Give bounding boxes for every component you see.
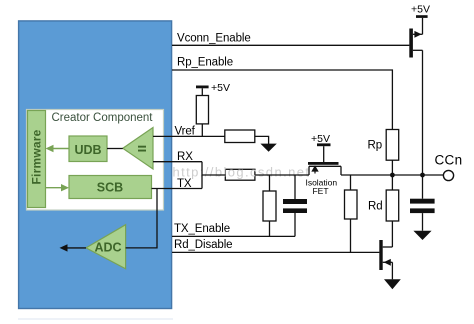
svg-text:Rd_Disable: Rd_Disable — [174, 239, 232, 251]
SCB block — [69, 176, 152, 199]
wire Vconn_Enable — [172, 44, 409, 46]
svg-text:+5V: +5V — [411, 3, 430, 15]
wire TX — [152, 188, 203, 190]
wire Vconn FET source down to CC line — [422, 50, 424, 175]
wire ADC input from TX node — [126, 189, 157, 248]
svg-text:TX_Enable: TX_Enable — [174, 223, 230, 235]
+5V supply (Vref pull-up) — [196, 82, 230, 96]
wire Rd_Disable — [172, 251, 379, 253]
ground (Vref) — [260, 144, 276, 152]
resistor Rd — [386, 175, 399, 247]
wire Vref — [153, 135, 225, 137]
node junction (cap at CC line) — [420, 173, 425, 178]
wire Rp_Enable — [172, 70, 392, 130]
resistor Rp — [386, 130, 399, 176]
ADC block — [86, 225, 126, 269]
wire isolation FET to CCn — [341, 174, 444, 176]
isolation FET Q1 — [308, 133, 341, 175]
arrow UDB to Firmware — [46, 145, 70, 152]
svg-text:Firmware: Firmware — [30, 129, 44, 184]
PSoC device block (blue) — [19, 21, 172, 309]
wire TX_Enable — [172, 235, 295, 237]
svg-text:Creator Component: Creator Component — [52, 112, 154, 124]
faint shadow line under device block — [18, 318, 173, 319]
svg-text:+5V: +5V — [311, 133, 330, 145]
capacitor (TX filter) — [283, 175, 307, 236]
resistor (pull-down after FET) — [345, 175, 358, 252]
ground (Rd FET) — [384, 279, 401, 289]
svg-text:Vconn_Enable: Vconn_Enable — [177, 32, 251, 44]
svg-text:Rd: Rd — [368, 201, 383, 213]
svg-text:ADC: ADC — [94, 240, 121, 254]
svg-text:SCB: SCB — [97, 181, 123, 195]
Vconn FET Q2 (top) — [409, 3, 430, 57]
svg-text:FET: FET — [312, 186, 328, 196]
Rd FET Q3 (bottom) — [379, 240, 392, 279]
terminal CCn — [443, 170, 453, 180]
arrow Firmware to SCB — [46, 184, 70, 191]
wire resistor to ground — [255, 136, 269, 144]
node junction (Rp/Rd at CC line) — [390, 173, 395, 178]
wire RX — [153, 161, 202, 163]
resistor (Vref series) — [225, 130, 255, 143]
resistor (Vref pull-up) — [196, 96, 208, 137]
resistor (CC series) — [225, 169, 255, 180]
firmware block — [28, 111, 46, 208]
resistor (TX pull-down) — [263, 175, 276, 236]
svg-text:Rp: Rp — [368, 140, 383, 152]
svg-text:RX: RX — [177, 151, 193, 163]
wire UDB to comparator — [107, 148, 123, 150]
ground (CC cap) — [413, 231, 431, 240]
svg-text:http://blog.csdn.net: http://blog.csdn.net — [173, 165, 311, 180]
arrow ADC output (left) — [60, 244, 87, 251]
svg-text:UDB: UDB — [74, 143, 101, 157]
svg-text:Rp_Enable: Rp_Enable — [177, 57, 233, 69]
wire series resistor to isolation FET — [255, 174, 309, 176]
Creator Component box — [27, 110, 164, 211]
svg-text:CCn: CCn — [435, 153, 463, 168]
wire to series resistor — [202, 174, 225, 176]
svg-text:TX: TX — [177, 178, 192, 190]
capacitor (CC line) — [410, 175, 435, 231]
wire RX/TX join — [201, 162, 203, 189]
UDB block — [69, 136, 107, 162]
svg-text:+5V: +5V — [211, 82, 230, 94]
svg-text:Vref: Vref — [175, 126, 196, 138]
comparator U1 (=) — [123, 128, 153, 170]
